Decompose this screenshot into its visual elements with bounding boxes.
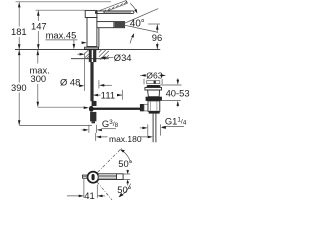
drain cone: [148, 90, 160, 97]
svg-text:41: 41: [84, 190, 94, 200]
top view circle: [88, 172, 99, 183]
dim max300: [30, 50, 50, 107]
svg-text:max.45: max.45: [46, 29, 77, 40]
mini dim lever: [123, 170, 130, 186]
ref line 390: [19, 125, 92, 127]
aerator: [115, 22, 124, 27]
hatch left: [85, 50, 89, 59]
tailpipe: [153, 114, 156, 143]
arc lower 50: [120, 184, 131, 197]
drain rim: [145, 88, 162, 91]
dim 41: [67, 179, 105, 201]
40deg arc upper: [130, 3, 135, 9]
body: [87, 18, 97, 47]
svg-text:max.180: max.180: [109, 134, 142, 144]
spout underside edge: [98, 28, 100, 48]
deck top: [15, 49, 160, 51]
G1 1/4 label: [140, 116, 187, 136]
deck-section arrow: [77, 53, 81, 55]
side inlet block: [140, 104, 144, 111]
hose: [90, 62, 93, 101]
lever horizontal: [97, 11, 134, 14]
dim 390: [11, 50, 27, 126]
shank through deck: [89, 50, 92, 63]
svg-text:300: 300: [31, 73, 47, 84]
deck bottom: [71, 58, 109, 60]
drain plug knob: [147, 81, 160, 84]
svg-text:50°: 50°: [118, 158, 132, 169]
ref line max300: [38, 106, 85, 108]
ray lower: [97, 182, 112, 200]
dim 181: [11, 2, 27, 49]
svg-text:390: 390: [11, 82, 27, 93]
extension line top 181: [16, 1, 112, 3]
extension line 147: [36, 9, 86, 11]
horizontal rod: [93, 108, 142, 110]
arc upper 50: [121, 150, 130, 162]
dim Ø48: [60, 53, 112, 91]
drain ring: [148, 101, 160, 111]
spout: [97, 22, 125, 28]
dim 111: [93, 90, 122, 101]
dim 96: [148, 24, 162, 49]
lever raised phantom: [100, 1, 128, 14]
40deg V lines: [125, 9, 158, 33]
mini dim thread: [82, 125, 102, 133]
lower nut: [149, 111, 160, 113]
base ring: [85, 47, 99, 49]
drain nut: [146, 97, 162, 101]
dim 40-53: [160, 78, 190, 106]
svg-text:Ø34: Ø34: [114, 52, 132, 63]
G3/8 label: [102, 118, 119, 129]
top view: ray upper: [98, 147, 123, 172]
inner pill: [92, 174, 95, 180]
ball joint: [89, 106, 94, 112]
svg-text:40-53: 40-53: [166, 87, 190, 98]
drain plug lens: [147, 85, 161, 88]
nut: [92, 101, 97, 106]
rod end fitting: [140, 104, 144, 111]
svg-text:147: 147: [31, 21, 47, 32]
left stub: [83, 175, 88, 178]
dim Ø63: [140, 71, 166, 81]
thread G3/8: [90, 112, 96, 121]
svg-text:Ø63: Ø63: [146, 71, 162, 81]
svg-text:96: 96: [152, 32, 162, 43]
svg-text:181: 181: [11, 26, 27, 37]
side inlet window: [144, 104, 148, 111]
G1 1/4 ext ticks: [148, 124, 161, 135]
svg-text:Ø 48: Ø 48: [60, 77, 80, 88]
handle base: [85, 10, 97, 17]
lever top view: [98, 174, 123, 180]
Ø34 label: [100, 52, 131, 63]
40deg arc lower: [130, 36, 133, 43]
hatch right: [99, 50, 109, 60]
G1 1/4 arrows: [140, 127, 143, 129]
dim max180: [96, 133, 153, 144]
svg-text:111: 111: [101, 90, 115, 101]
svg-text:40°: 40°: [130, 19, 145, 30]
Ø63 ticks: [144, 79, 162, 84]
svg-text:50°: 50°: [117, 184, 131, 195]
max45 label: [45, 29, 86, 49]
dim 147: [31, 11, 47, 50]
